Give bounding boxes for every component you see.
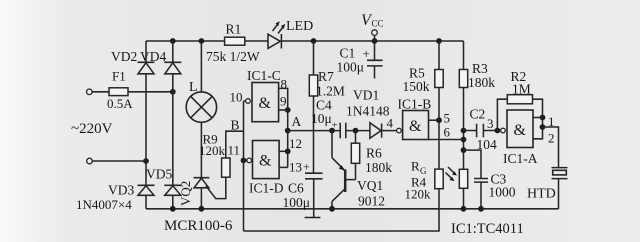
gate U1B box	[403, 111, 429, 140]
node pin11 junction	[241, 158, 247, 164]
wire VD4 column	[172, 41, 174, 209]
svg-text:C6: C6	[288, 181, 304, 196]
svg-text:R7: R7	[318, 69, 334, 84]
resistor R1	[225, 37, 245, 45]
svg-text:F1: F1	[112, 69, 126, 84]
svg-text:LED: LED	[286, 19, 313, 34]
svg-text:VD1: VD1	[353, 88, 379, 103]
gate U1A box	[507, 110, 533, 148]
resistor R4	[435, 169, 443, 189]
svg-text:120k: 120k	[405, 187, 432, 202]
svg-text:B: B	[231, 118, 240, 133]
wire node A line	[288, 130, 370, 132]
svg-text:A: A	[292, 114, 302, 129]
resistor R7	[309, 75, 317, 96]
photoresistor RG	[459, 169, 467, 188]
svg-text:IC1:TC4011: IC1:TC4011	[451, 221, 524, 237]
svg-text:150k: 150k	[403, 79, 430, 94]
wire to HTD	[543, 127, 559, 168]
svg-text:C2: C2	[470, 107, 486, 122]
svg-text:1.2M: 1.2M	[316, 84, 345, 99]
wire lamp column	[200, 41, 202, 209]
svg-text:CC: CC	[372, 19, 384, 29]
node VQ1 emitter junction	[329, 128, 335, 134]
wire pin10 lead	[244, 100, 246, 102]
wire pin12 lead	[279, 150, 288, 152]
sounder HTD	[552, 168, 568, 179]
node A	[285, 128, 291, 134]
svg-text:&: &	[514, 122, 527, 139]
svg-text:VD3: VD3	[108, 183, 134, 198]
svg-text:6: 6	[444, 125, 451, 140]
gate U1B bubble pin4	[397, 128, 402, 133]
svg-text:+: +	[303, 160, 310, 174]
resistor R3	[459, 70, 467, 88]
LED arrows	[273, 25, 284, 34]
wire VD2 column	[145, 41, 147, 209]
diode VD4	[164, 62, 181, 74]
gate U1D input bubble pin11	[247, 158, 252, 163]
wire pin6 lead	[429, 139, 464, 141]
wire node B column	[243, 101, 245, 231]
svg-text:IC1-B: IC1-B	[398, 97, 432, 112]
terminal lower AC input	[87, 158, 93, 164]
wire lower AC line	[92, 160, 146, 162]
svg-text:180k: 180k	[468, 75, 495, 90]
resistor R5	[435, 70, 443, 88]
node junction VD5 bottom	[170, 206, 176, 212]
svg-text:MCR100-6: MCR100-6	[164, 218, 233, 234]
node junction lamp top	[199, 38, 205, 44]
resistor R6	[351, 143, 359, 163]
svg-text:4: 4	[387, 116, 394, 131]
wire Vcc stub	[374, 35, 376, 41]
svg-text:180k: 180k	[365, 160, 392, 175]
gate U1A bubble pin3	[501, 128, 506, 133]
capacitor C1	[367, 41, 383, 79]
wire HTD bottom	[558, 179, 560, 209]
node pin12 junction	[285, 148, 291, 154]
node junction VQ2 bottom	[199, 206, 205, 212]
node junction R5 top	[436, 38, 442, 44]
node pin8/9 junction	[285, 107, 291, 113]
wire R2 left leg	[497, 99, 507, 130]
diode VD2	[138, 62, 155, 74]
svg-text:+: +	[332, 120, 338, 132]
node junction fuse/VD4	[170, 89, 176, 95]
svg-text:VQ2: VQ2	[178, 181, 193, 206]
wire RG bottom	[463, 188, 465, 209]
wire R5 column	[438, 41, 440, 169]
terminal upper AC input	[87, 89, 93, 95]
node junction VD2/VD3	[143, 158, 149, 164]
wire pin1 lead	[533, 117, 543, 119]
resistor R9	[222, 158, 230, 177]
node pin6/R3 junctions	[461, 128, 467, 134]
capacitor C3	[464, 150, 489, 209]
svg-text:0.5A: 0.5A	[107, 96, 133, 111]
node junction R7 top	[311, 38, 317, 44]
svg-text:2: 2	[548, 131, 555, 146]
capacitor C2	[464, 124, 501, 137]
node pin1 junction	[540, 115, 546, 121]
svg-text:75k 1/2W: 75k 1/2W	[206, 49, 260, 64]
svg-text:R: R	[411, 159, 420, 174]
resistor R2	[507, 95, 532, 104]
svg-text:&: &	[259, 95, 272, 112]
node R6 top junction	[353, 128, 359, 134]
svg-text:VD4: VD4	[140, 49, 166, 64]
wire pin2 lead	[533, 118, 543, 139]
svg-text:13: 13	[289, 160, 302, 175]
capacitor C6	[305, 173, 323, 217]
wire R7 column	[313, 41, 315, 173]
svg-text:1000: 1000	[489, 185, 516, 200]
RG arrows	[446, 167, 456, 179]
svg-text:HTD: HTD	[527, 187, 556, 202]
wire pin11 lead	[244, 159, 247, 161]
node R2 left junction	[495, 128, 501, 134]
svg-text:9: 9	[280, 94, 287, 109]
svg-text:&: &	[409, 118, 422, 135]
wire pin13 lead	[279, 166, 288, 168]
thyristor VQ2	[194, 178, 210, 188]
LED D1	[268, 34, 281, 49]
svg-text:IC1-A: IC1-A	[503, 151, 538, 166]
svg-text:10μ: 10μ	[311, 111, 332, 126]
svg-text:~220V: ~220V	[71, 121, 113, 137]
svg-text:11: 11	[228, 143, 241, 158]
svg-text:&: &	[259, 153, 272, 170]
svg-text:1N4148: 1N4148	[346, 104, 390, 119]
svg-text:R1: R1	[226, 22, 242, 37]
lamp L	[186, 92, 216, 122]
node VQ1 collector junction	[329, 206, 335, 212]
wire top rail	[146, 40, 464, 42]
svg-text:VD5: VD5	[146, 167, 172, 182]
svg-text:R6: R6	[366, 146, 382, 161]
svg-text:R3: R3	[472, 61, 488, 76]
node pin5 junction	[436, 117, 442, 123]
node C3 bottom junction	[478, 206, 484, 212]
wire pin8	[279, 88, 288, 110]
wire bottom rail	[146, 208, 559, 210]
svg-text:1N4007×4: 1N4007×4	[76, 197, 132, 212]
wire VQ2 gate	[206, 177, 226, 198]
transistor VQ1	[332, 131, 356, 209]
svg-text:100μ: 100μ	[283, 195, 311, 210]
diode VD3	[138, 185, 155, 195]
svg-text:100μ: 100μ	[337, 60, 365, 75]
node pin2 junction	[540, 124, 546, 130]
svg-text:10: 10	[230, 90, 243, 105]
wire VD1 to pin4	[382, 130, 397, 132]
wire node A column	[287, 110, 289, 167]
svg-text:C1: C1	[340, 46, 356, 61]
terminal Vcc	[372, 30, 378, 36]
svg-text:IC1-D: IC1-D	[249, 181, 284, 196]
svg-text:1M: 1M	[512, 82, 531, 97]
svg-text:9012: 9012	[358, 194, 385, 209]
svg-text:12: 12	[289, 136, 302, 151]
svg-text:IC1-C: IC1-C	[247, 68, 281, 83]
capacitor C4	[340, 123, 346, 139]
diode VD5	[164, 185, 181, 195]
svg-text:120k: 120k	[199, 143, 226, 158]
fuse F1	[109, 88, 128, 96]
wire pin5 lead	[429, 119, 440, 121]
wire R2 right leg	[533, 99, 543, 117]
svg-text:8: 8	[281, 77, 288, 92]
gate U1C box	[252, 83, 279, 122]
wire R6 leads	[355, 131, 357, 180]
wire pin9	[279, 109, 288, 111]
wire fuse line	[92, 91, 173, 93]
gate U1C output bubble pin10	[246, 99, 251, 104]
gate U1D box	[253, 141, 280, 179]
wire lower loop	[244, 189, 440, 231]
ground bar	[305, 217, 321, 219]
svg-text:VD2: VD2	[111, 49, 137, 64]
svg-text:3: 3	[487, 116, 494, 131]
node RG bottom junction	[461, 206, 467, 212]
svg-text:VQ1: VQ1	[357, 178, 383, 193]
node junction VD4 top	[170, 38, 176, 44]
svg-text:L: L	[189, 80, 198, 95]
wire R3 column	[463, 41, 465, 169]
node junction Vcc/C1	[372, 38, 378, 44]
svg-text:5: 5	[444, 111, 451, 126]
diode VD1	[370, 123, 382, 139]
wire R9 top to node B	[226, 131, 244, 158]
